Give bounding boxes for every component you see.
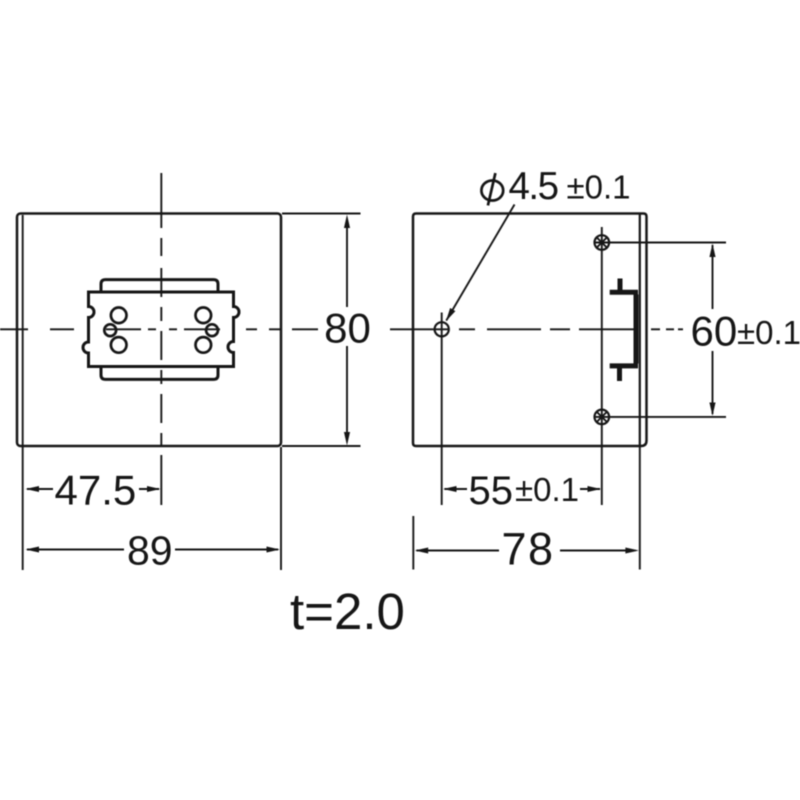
svg-text:±0.1: ±0.1 <box>737 314 800 351</box>
svg-text:55: 55 <box>469 469 514 513</box>
svg-text:78: 78 <box>502 524 555 575</box>
svg-text:80: 80 <box>324 305 371 352</box>
svg-text:4.5: 4.5 <box>509 165 558 208</box>
svg-text:60: 60 <box>691 308 738 355</box>
svg-text:t=2.0: t=2.0 <box>290 583 405 640</box>
svg-text:±0.1: ±0.1 <box>567 169 631 206</box>
svg-text:89: 89 <box>127 528 173 574</box>
svg-text:47.5: 47.5 <box>55 467 137 514</box>
svg-text:±0.1: ±0.1 <box>515 471 579 508</box>
